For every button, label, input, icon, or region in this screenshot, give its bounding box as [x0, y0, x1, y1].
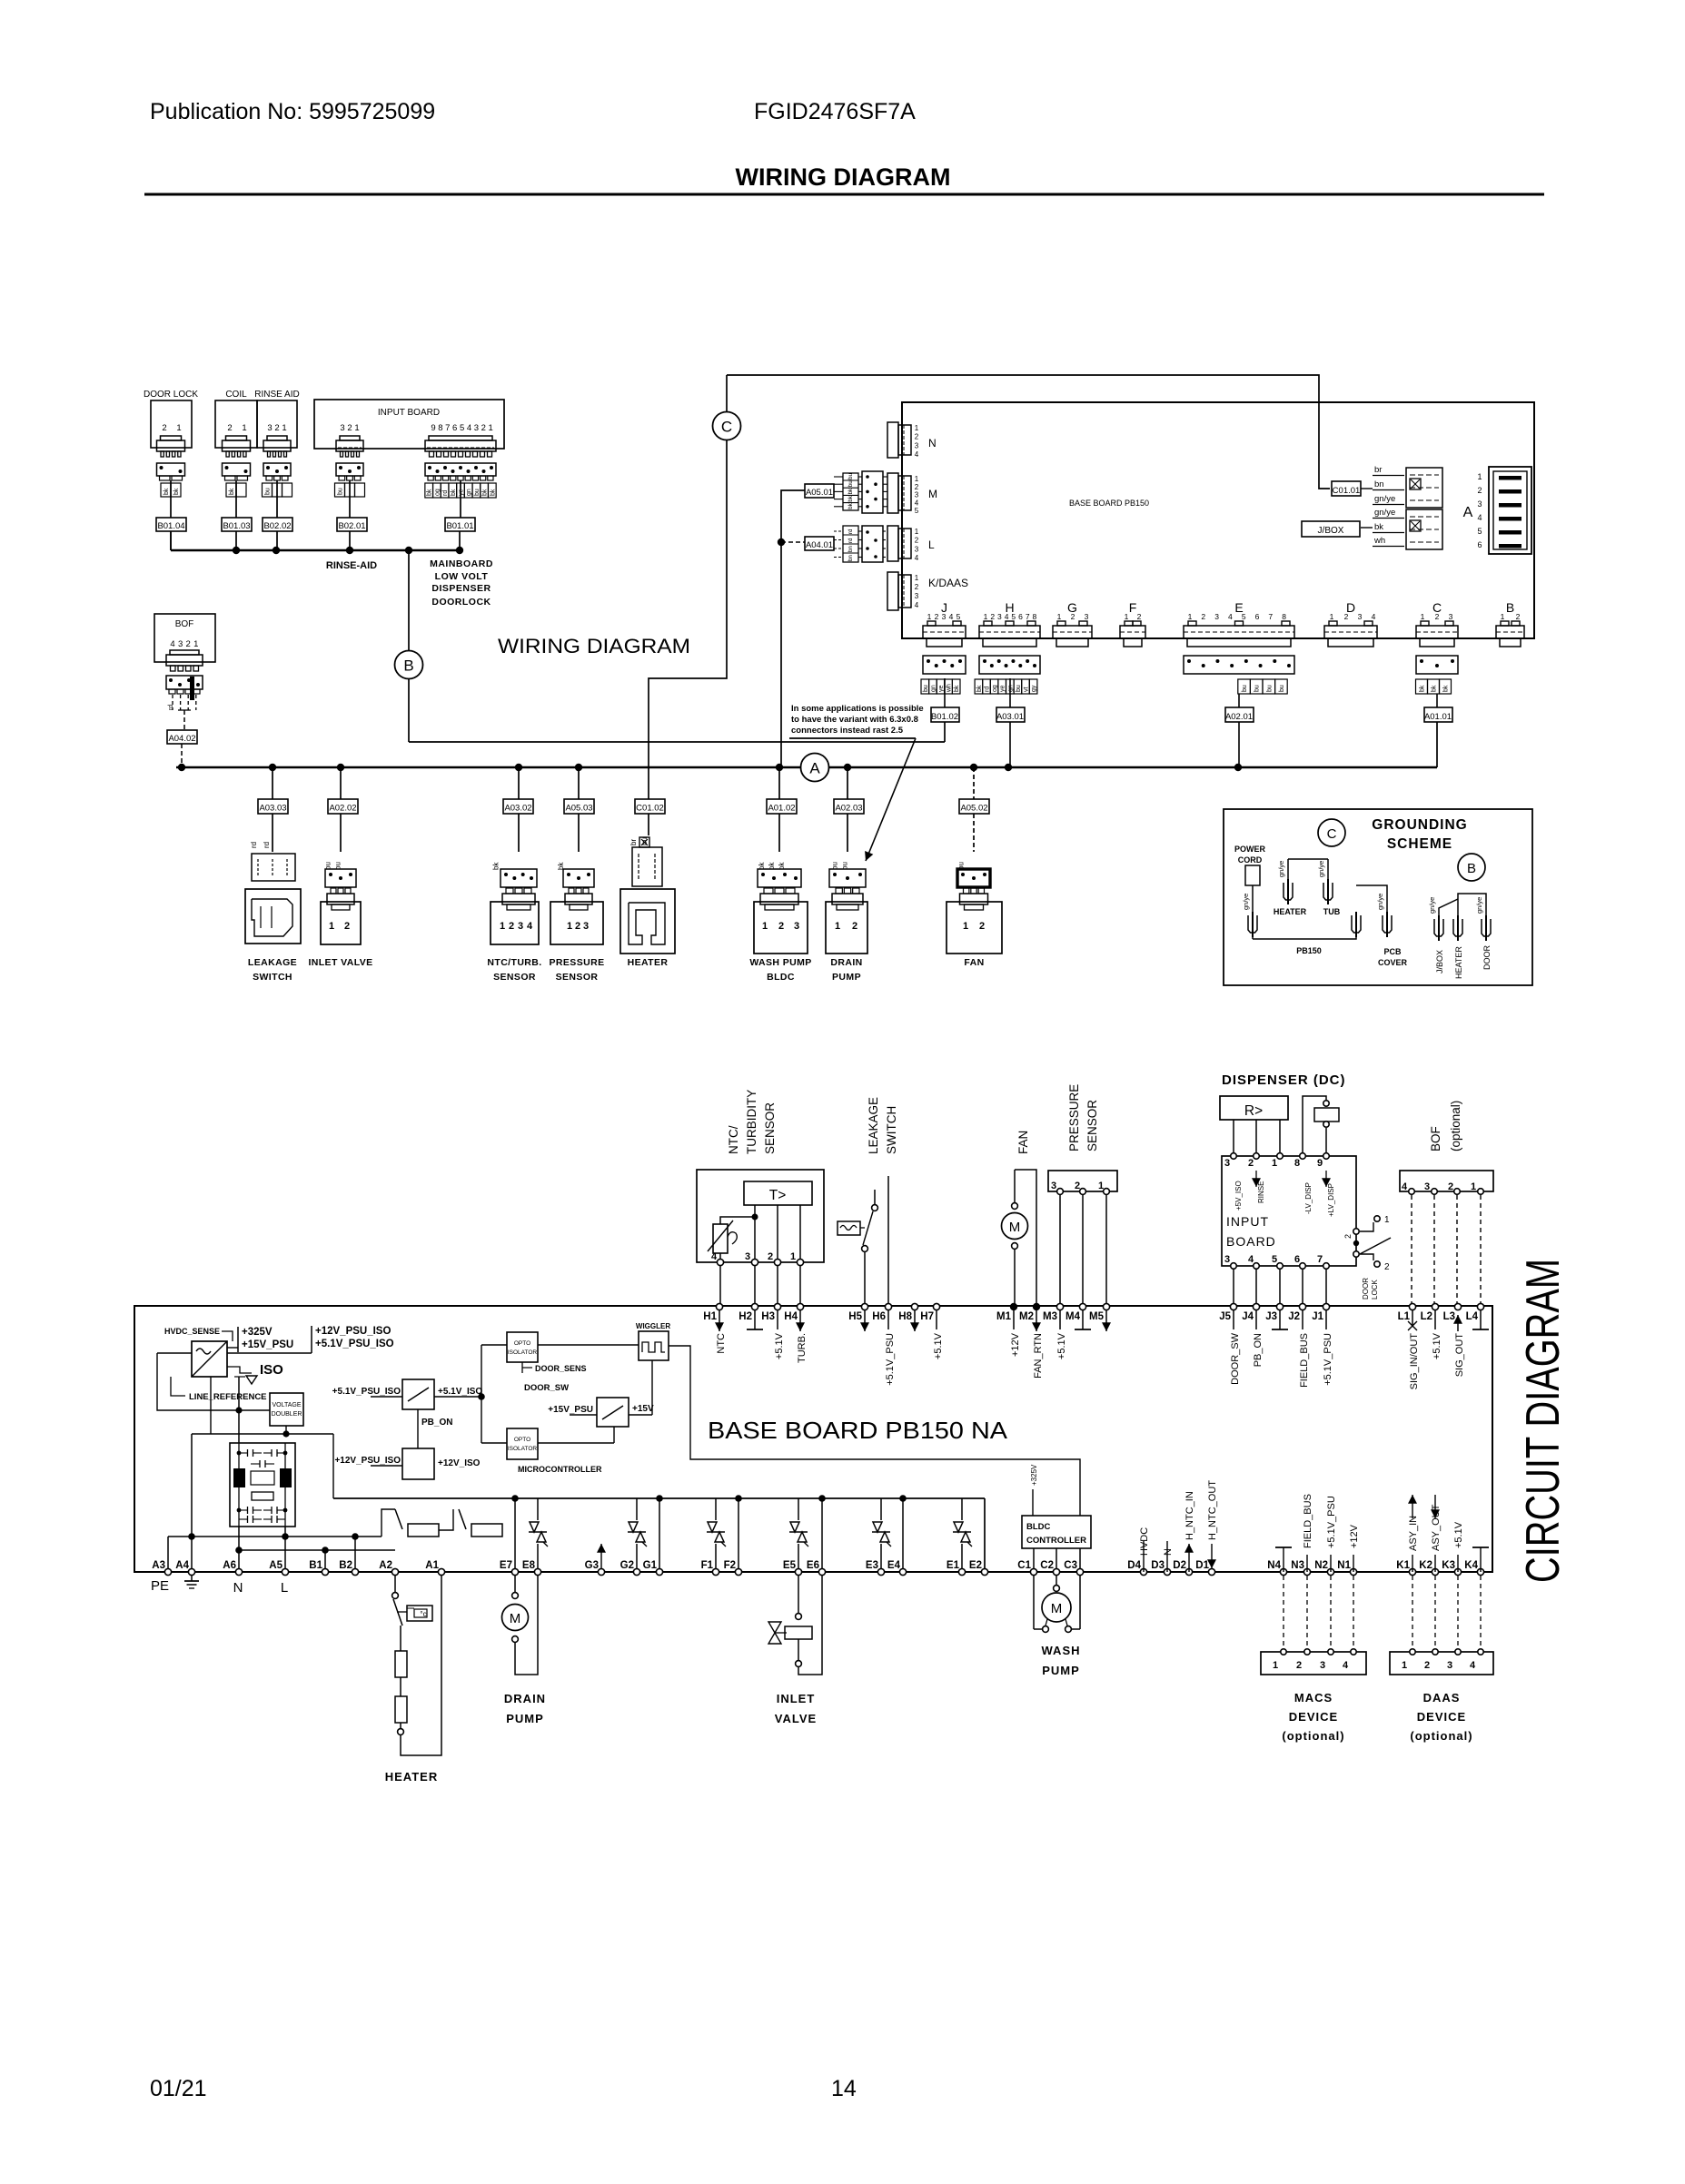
svg-text:2: 2	[1075, 1181, 1080, 1191]
svg-text:J/BOX: J/BOX	[1435, 950, 1444, 973]
device connector socket for A02.02	[325, 869, 356, 887]
svg-text:BOF: BOF	[175, 619, 194, 629]
svg-text:2: 2	[1071, 612, 1075, 621]
connector DOOR LOCK	[144, 390, 198, 480]
pin E3	[866, 1560, 885, 1576]
svg-text:2: 2	[1424, 1660, 1430, 1671]
svg-text:3: 3	[1449, 612, 1453, 621]
fan motor circuit	[1002, 1170, 1037, 1307]
svg-text:D4: D4	[1127, 1560, 1141, 1571]
connector COIL	[215, 390, 257, 480]
code box B01.04	[156, 518, 186, 531]
svg-text:DOOR: DOOR	[1362, 1278, 1370, 1300]
svg-text:3: 3	[997, 612, 1002, 621]
wire B01.01 to low-volt bus	[459, 531, 461, 550]
device label DAAS DEVICE (optional)	[1410, 1691, 1472, 1743]
svg-text:LOCK: LOCK	[1371, 1280, 1379, 1300]
svg-text:br: br	[1374, 465, 1382, 475]
svg-text:DOOR_SW: DOOR_SW	[1230, 1332, 1241, 1384]
svg-text:+5.1V: +5.1V	[774, 1332, 785, 1359]
svg-text:bk: bk	[847, 502, 854, 509]
+15V PSU switch	[548, 1360, 654, 1427]
EMI filter network box	[230, 1443, 295, 1527]
svg-text:rd: rd	[847, 529, 854, 534]
dashed wires BOF to A04.02	[173, 695, 196, 730]
label PRESSURE SENSOR (circuit)	[1067, 1084, 1099, 1151]
pin J5	[1219, 1303, 1241, 1384]
pin L2	[1421, 1303, 1442, 1359]
svg-text:A05.02: A05.02	[960, 804, 987, 814]
wire E socket to A02.01 and bus	[1238, 694, 1240, 767]
code box A04.01	[805, 537, 834, 550]
svg-text:bu: bu	[1242, 685, 1248, 692]
heater device box	[620, 889, 675, 954]
note text about 6.3x0.8 connectors	[789, 704, 924, 738]
wire opto2 to +15V switch	[538, 1427, 614, 1443]
svg-text:gn: gn	[466, 489, 472, 496]
node B circle	[395, 651, 423, 679]
svg-text:C3: C3	[1064, 1560, 1077, 1571]
svg-text:PUMP: PUMP	[1042, 1664, 1080, 1677]
svg-text:3: 3	[1447, 1660, 1452, 1671]
rail junction 994	[899, 1495, 907, 1502]
svg-text:M: M	[928, 488, 937, 500]
code box A02.03	[834, 799, 864, 814]
device box WASH PUMP	[754, 902, 808, 954]
wire labels br bu	[629, 837, 649, 845]
label PCB COVER	[1378, 947, 1408, 967]
wire J socket to B01.02	[944, 678, 946, 707]
wires pressure sensor to M3-M5	[1060, 1195, 1106, 1307]
wire B01.04 to low-volt bus	[170, 531, 172, 550]
labels +12V_PSU_ISO +5.1V_PSU_ISO	[227, 1326, 394, 1353]
pin A4	[175, 1560, 194, 1576]
svg-text:6: 6	[1294, 1254, 1300, 1265]
phase rail	[333, 1434, 985, 1572]
pin H1	[703, 1303, 727, 1353]
svg-text:bu: bu	[923, 685, 929, 692]
svg-text:bk: bk	[451, 489, 457, 496]
rail drop wire	[659, 1498, 660, 1572]
svg-text:7: 7	[1268, 612, 1273, 621]
svg-text:H8: H8	[898, 1311, 912, 1322]
svg-text:bn: bn	[847, 546, 854, 552]
wire colour list br bn gn/ye	[1361, 465, 1404, 547]
wire C socket to A01.01	[1416, 679, 1452, 707]
wire door lock column to bus	[170, 531, 172, 550]
svg-text:3: 3	[915, 592, 919, 600]
svg-text:4: 4	[1343, 1660, 1349, 1671]
svg-text:5: 5	[1477, 527, 1482, 536]
svg-text:gn: gn	[1007, 685, 1014, 692]
pin E2	[969, 1560, 988, 1576]
svg-text:3: 3	[178, 639, 183, 649]
svg-text:SENSOR: SENSOR	[763, 1102, 777, 1154]
relay contact 2	[439, 1509, 515, 1537]
wire bus to A01.02	[778, 767, 780, 799]
svg-text:3: 3	[474, 423, 479, 433]
svg-text:bu: bu	[474, 489, 481, 496]
board connector F	[1120, 600, 1145, 647]
svg-text:1: 1	[193, 639, 198, 649]
connector BOF	[154, 614, 215, 700]
wires sensor to H1-H4	[720, 1266, 800, 1307]
svg-text:E2: E2	[969, 1560, 982, 1571]
INPUT BOARD box	[314, 400, 504, 449]
svg-text:1: 1	[489, 423, 493, 433]
device label FAN	[964, 957, 984, 968]
wires input board to J pins	[1234, 1270, 1326, 1307]
svg-text:wh: wh	[1373, 536, 1385, 546]
code box A05.01	[805, 484, 834, 498]
wire bus to A05.03	[578, 767, 580, 799]
junction node B-loop	[405, 547, 412, 554]
input board bottom pins 3 4 5 6 7	[1224, 1254, 1329, 1269]
pin A6	[223, 1560, 242, 1576]
wire colour labels below A01.02	[758, 862, 786, 870]
svg-text:LOW VOLT: LOW VOLT	[435, 571, 489, 582]
svg-text:4: 4	[1402, 1181, 1408, 1192]
svg-text:2: 2	[1137, 612, 1142, 621]
code box B02.01	[337, 518, 367, 531]
pin C3	[1064, 1560, 1083, 1576]
svg-text:A02.03: A02.03	[835, 804, 862, 814]
svg-text:NTC: NTC	[716, 1333, 727, 1354]
svg-text:INLET: INLET	[777, 1692, 816, 1705]
wash pump motor	[1034, 1576, 1080, 1632]
svg-text:HVDC_SENSE: HVDC_SENSE	[164, 1327, 220, 1336]
junction A02.01	[1234, 764, 1242, 771]
svg-text:bu: bu	[1279, 685, 1285, 692]
wire labels B02.01	[335, 483, 365, 497]
svg-text:NTC/: NTC/	[727, 1125, 740, 1154]
pin D3	[1151, 1560, 1170, 1576]
code box A04.02	[167, 730, 197, 744]
svg-text:6: 6	[1018, 612, 1023, 621]
dashed wire junction to A04.01	[781, 541, 805, 543]
wire A05.01 to bus vertical	[781, 490, 805, 767]
svg-text:4: 4	[1005, 612, 1009, 621]
dashed wire A04.02 to main bus	[181, 744, 183, 767]
device label PRESSURE SENSOR	[550, 957, 605, 983]
svg-text:DEVICE: DEVICE	[1289, 1710, 1338, 1724]
svg-text:3: 3	[915, 545, 919, 553]
svg-text:1: 1	[927, 612, 932, 621]
device label DRAIN PUMP	[830, 957, 862, 983]
svg-text:1: 1	[762, 921, 768, 932]
svg-text:M2: M2	[1019, 1311, 1034, 1322]
wire labels J	[921, 679, 960, 694]
ground pin heater	[1284, 883, 1293, 900]
pin A1	[425, 1560, 444, 1576]
svg-text:F: F	[1129, 600, 1137, 615]
svg-text:+12V: +12V	[1010, 1332, 1021, 1357]
svg-text:5: 5	[460, 423, 464, 433]
svg-text:+15V_PSU: +15V_PSU	[548, 1405, 593, 1415]
device plug for A03.02	[502, 888, 535, 910]
svg-text:3: 3	[518, 921, 523, 932]
wire labels bu bu bk bk bk (M)	[843, 473, 858, 510]
svg-text:PB_ON: PB_ON	[421, 1418, 452, 1428]
dashed wires BOF to L pins	[1412, 1195, 1481, 1307]
svg-text:PUMP: PUMP	[832, 972, 861, 983]
svg-text:A02.01: A02.01	[1225, 712, 1253, 722]
device box INLET VALVE	[321, 902, 361, 944]
svg-text:A02.02: A02.02	[329, 804, 356, 814]
harness socket C	[1416, 656, 1458, 674]
label INPUT BOARD (circuit)	[1226, 1214, 1276, 1249]
svg-text:DISPENSER: DISPENSER	[431, 583, 491, 594]
pin J1	[1312, 1303, 1333, 1385]
harness socket H	[979, 656, 1040, 674]
svg-text:01/21: 01/21	[150, 2076, 207, 2101]
wire node B horizontal run to B01.02	[409, 741, 945, 743]
board connector E	[1184, 600, 1294, 647]
wire bus to A02.02	[340, 767, 342, 799]
svg-text:M1: M1	[996, 1311, 1012, 1322]
svg-text:rd: rd	[847, 538, 854, 543]
svg-text:rd: rd	[168, 705, 174, 710]
svg-text:bk: bk	[847, 488, 854, 494]
wire labels rd rd	[250, 842, 271, 848]
pin C1	[1017, 1560, 1036, 1576]
triac F inlet	[707, 1498, 726, 1572]
svg-text:TURB.: TURB.	[797, 1333, 808, 1363]
svg-text:8: 8	[1033, 612, 1037, 621]
svg-text:A5: A5	[269, 1560, 282, 1571]
svg-text:SENSOR: SENSOR	[1085, 1100, 1099, 1151]
device connector socket for A05.03	[563, 869, 594, 887]
rail drop wire	[514, 1498, 516, 1572]
svg-text:DEVICE: DEVICE	[1417, 1710, 1466, 1724]
input board top pins	[1224, 1153, 1329, 1169]
svg-text:gn/ye: gn/ye	[1475, 897, 1483, 914]
wire A02.03 to device	[847, 814, 848, 852]
pin K3	[1442, 1560, 1461, 1576]
svg-text:5: 5	[1242, 612, 1246, 621]
dispenser R> box	[1220, 1096, 1288, 1120]
svg-text:F1: F1	[701, 1560, 714, 1571]
svg-text:(optional): (optional)	[1410, 1729, 1472, 1743]
relay contact 1	[382, 1509, 439, 1550]
svg-text:FAN: FAN	[1016, 1131, 1030, 1154]
opto isolator 1	[507, 1332, 538, 1362]
BASE BOARD PB150 outline box	[902, 402, 1534, 638]
svg-text:+15V: +15V	[632, 1404, 654, 1414]
harness socket J	[923, 656, 966, 674]
svg-text:DOOR: DOOR	[1482, 944, 1492, 970]
svg-text:A3: A3	[152, 1560, 165, 1571]
svg-text:3: 3	[745, 1251, 750, 1262]
node A circle	[801, 754, 829, 782]
svg-text:A03.03: A03.03	[259, 804, 286, 814]
svg-text:A4: A4	[175, 1560, 189, 1571]
svg-text:B: B	[1506, 600, 1514, 615]
svg-text:CORD: CORD	[1238, 855, 1263, 865]
wire A03.02 to device	[518, 814, 520, 852]
svg-text:2: 2	[915, 483, 919, 491]
svg-text:L3: L3	[1443, 1311, 1455, 1322]
pin G3	[585, 1560, 605, 1576]
svg-text:FGID2476SF7A: FGID2476SF7A	[754, 99, 916, 124]
svg-text:H2: H2	[738, 1311, 752, 1322]
wire colour labels below A03.02	[492, 862, 501, 870]
wire B01.03 to low-volt bus	[235, 531, 237, 550]
svg-text:+12V_PSU_ISO: +12V_PSU_ISO	[334, 1456, 401, 1466]
svg-text:og: og	[434, 489, 441, 496]
svg-text:1: 1	[915, 424, 919, 432]
svg-text:1: 1	[176, 423, 181, 433]
pin H6	[872, 1303, 896, 1385]
svg-text:rd: rd	[985, 687, 991, 692]
svg-text:M: M	[510, 1611, 521, 1626]
svg-text:1: 1	[1272, 1158, 1277, 1169]
ground pin heater B	[1453, 919, 1462, 936]
svg-text:connectors instead rast 2.5: connectors instead rast 2.5	[791, 726, 904, 736]
svg-text:E1: E1	[947, 1560, 960, 1571]
svg-text:rd: rd	[263, 842, 271, 848]
svg-text:2: 2	[274, 423, 279, 433]
code box A05.02	[959, 799, 989, 814]
wires to voltage doubler	[192, 1377, 333, 1443]
pin H8	[898, 1303, 919, 1331]
svg-text:5: 5	[915, 507, 919, 515]
pin H4	[784, 1303, 808, 1363]
svg-text:-LV_DISP: -LV_DISP	[1304, 1182, 1313, 1214]
junction A01.02	[776, 764, 783, 771]
svg-text:PE: PE	[151, 1578, 169, 1594]
svg-text:+12V_PSU_ISO: +12V_PSU_ISO	[315, 1326, 391, 1337]
junction A02.02	[337, 764, 344, 771]
svg-text:HEATER: HEATER	[1274, 907, 1307, 916]
svg-text:D2: D2	[1173, 1560, 1186, 1571]
wire bus to A02.03	[847, 767, 848, 799]
VOLTAGE DOUBLER box	[270, 1393, 303, 1426]
ground pin door	[1482, 919, 1491, 936]
svg-text:3: 3	[1224, 1158, 1230, 1169]
triac E3	[872, 1498, 891, 1572]
AC-DC converter	[192, 1341, 227, 1377]
svg-text:4: 4	[1477, 513, 1482, 522]
device label WASH PUMP BLDC	[749, 957, 811, 983]
wire labels bu bu bu bu (E)	[1238, 679, 1287, 694]
pin J2	[1288, 1303, 1310, 1388]
svg-text:gn: gn	[930, 685, 937, 692]
svg-text:1: 1	[567, 921, 572, 932]
svg-text:bu: bu	[640, 837, 649, 845]
device box FAN	[947, 902, 1002, 954]
svg-text:9: 9	[1317, 1158, 1323, 1169]
svg-text:J/BOX: J/BOX	[1318, 526, 1344, 536]
+12V ISO switch	[334, 1448, 480, 1479]
device label MACS DEVICE (optional)	[1282, 1691, 1344, 1743]
svg-text:2: 2	[1477, 486, 1482, 495]
label DOOR_SENS	[522, 1362, 587, 1393]
svg-text:8: 8	[1282, 612, 1286, 621]
junction A04.01 on vertical	[778, 539, 785, 546]
svg-text:T>: T>	[769, 1188, 787, 1203]
svg-text:A03.02: A03.02	[504, 804, 531, 814]
pin D1	[1195, 1560, 1214, 1576]
svg-text:N: N	[233, 1580, 243, 1596]
svg-text:+5.1V_PSU_ISO: +5.1V_PSU_ISO	[332, 1387, 401, 1397]
svg-text:4: 4	[949, 612, 954, 621]
svg-text:3: 3	[1320, 1660, 1325, 1671]
svg-text:bu: bu	[338, 488, 344, 495]
label NTC/TURBIDITY SENSOR	[727, 1090, 777, 1154]
triac E5	[789, 1498, 808, 1572]
board connector D	[1324, 600, 1377, 647]
pin N1	[1337, 1560, 1356, 1576]
svg-text:HVDC: HVDC	[1139, 1527, 1150, 1556]
svg-text:bu: bu	[1016, 685, 1022, 692]
svg-text:8: 8	[1294, 1158, 1300, 1169]
svg-text:H_NTC_IN: H_NTC_IN	[1184, 1491, 1195, 1540]
connector A pins 1-6	[1477, 472, 1482, 549]
svg-text:bu: bu	[847, 473, 854, 479]
svg-text:1: 1	[1057, 612, 1062, 621]
heater inline connector with fuse	[632, 837, 662, 886]
svg-text:2: 2	[915, 433, 919, 441]
board connector K/DAAS	[887, 572, 919, 610]
wire bus to A03.02	[518, 767, 520, 799]
code box A01.01	[1424, 707, 1452, 722]
junction node B01.03-bus	[233, 547, 240, 554]
svg-text:CIRCUIT DIAGRAM: CIRCUIT DIAGRAM	[1517, 1259, 1570, 1583]
svg-text:ASY_IN: ASY_IN	[1408, 1516, 1419, 1551]
pin L3	[1443, 1303, 1465, 1377]
svg-text:POWER: POWER	[1234, 845, 1266, 854]
svg-text:rd: rd	[250, 842, 258, 848]
wire +325V to BLDC controller	[1032, 1489, 1034, 1516]
svg-text:2: 2	[227, 423, 232, 433]
svg-text:N2: N2	[1314, 1560, 1328, 1571]
board connector J	[923, 600, 966, 647]
svg-text:bk: bk	[1432, 685, 1438, 692]
svg-text:J3: J3	[1265, 1311, 1277, 1322]
svg-text:WASH PUMP: WASH PUMP	[749, 957, 811, 968]
label HVDC_SENSE	[164, 1327, 233, 1341]
pin N3	[1291, 1560, 1310, 1576]
connector A housing	[1489, 467, 1531, 554]
socket to L connector	[834, 526, 887, 562]
rail junction 567	[511, 1495, 519, 1502]
svg-text:bu: bu	[1266, 685, 1273, 692]
svg-text:PRESSURE: PRESSURE	[550, 957, 605, 968]
device box DRAIN	[826, 902, 867, 954]
board connector M	[887, 473, 919, 515]
svg-text:1: 1	[354, 423, 359, 433]
label LEAKAGE SWITCH (circuit)	[867, 1097, 898, 1154]
svg-text:RINSE-AID: RINSE-AID	[326, 560, 377, 571]
svg-text:K1: K1	[1396, 1560, 1410, 1571]
code box B02.02	[263, 518, 292, 531]
pin A5	[269, 1560, 288, 1576]
svg-text:B01.03: B01.03	[223, 521, 250, 531]
svg-text:DOOR_SW: DOOR_SW	[524, 1383, 569, 1393]
svg-text:E8: E8	[522, 1560, 536, 1571]
svg-text:4: 4	[915, 499, 919, 507]
device plug for A05.03	[565, 888, 592, 910]
NTC/turbidity sensor box	[697, 1170, 824, 1262]
sensor pins	[717, 1259, 803, 1265]
pin A3	[152, 1560, 171, 1576]
WIGGLER box	[636, 1322, 670, 1360]
device label LEAKAGE SWITCH	[248, 957, 297, 983]
scheme node B circle	[1458, 854, 1485, 881]
svg-text:bk: bk	[1374, 522, 1383, 532]
triac G	[628, 1498, 647, 1572]
